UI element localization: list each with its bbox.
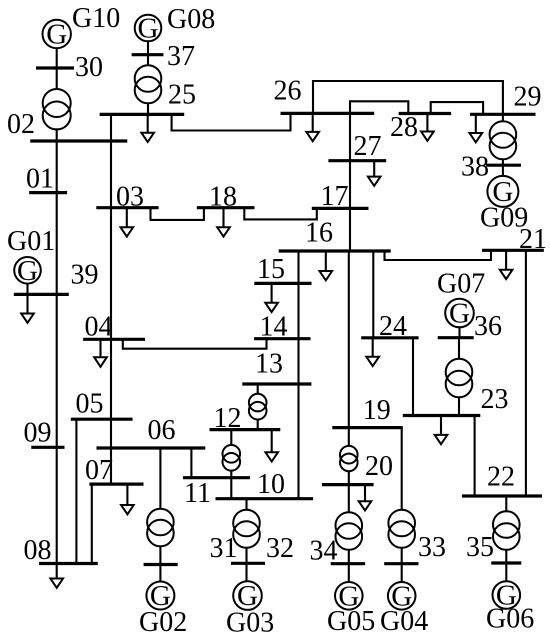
wire 17-18 step link [244,208,316,220]
wire bus 22 to transformer 35 [505,496,507,512]
svg-text:G04: G04 [380,606,428,637]
wire 25-26 step link [172,113,291,130]
transformer 29-38 [490,121,517,159]
bus 21 [482,249,544,252]
transformer 11-12 [223,445,241,471]
svg-text:15: 15 [257,254,285,285]
svg-text:01: 01 [26,164,54,195]
svg-text:13: 13 [255,349,283,380]
bus 22 [462,494,542,497]
wire bus 29 to transformer 38 [502,114,504,121]
wire 23-24 [412,338,414,416]
load at bus 07 [121,484,134,514]
svg-text:38: 38 [461,152,489,183]
generator G05 [335,580,363,612]
wire 26-28 step link [350,101,408,113]
bus 38 [486,164,521,167]
svg-text:10: 10 [257,469,285,500]
svg-text:G08: G08 [167,4,215,35]
svg-text:34: 34 [310,536,338,567]
load at bus 24 [366,338,379,366]
wire 22-23 [474,416,476,497]
generator G01 [14,255,41,287]
wire 17-27 [349,161,351,209]
generator G06 [493,580,521,612]
load at bus 26 [306,113,319,141]
wire 06-07 [110,448,112,484]
wire 13-14 [297,339,299,384]
wire G10 to bus 30 [56,48,58,68]
svg-text:37: 37 [167,41,195,72]
wire transformer to bus 23 [458,397,460,415]
transformer 19-33 [388,510,415,548]
transformer 20-34 [336,512,363,550]
transformer 19-20 [340,446,358,471]
wire bus 19 to transformer 20 [348,428,350,446]
load at bus 29 [470,114,483,142]
bus 18 [197,206,255,209]
load at bus 25 [141,114,154,142]
wire 14-15 [297,283,299,338]
svg-text:35: 35 [466,532,494,563]
wire 06-11 [190,448,192,478]
load at bus 21 [500,250,513,279]
wire 28-29 step link [431,102,483,114]
svg-text:G: G [449,298,470,330]
wire bus 13 to transformer 12-13 [257,384,259,394]
bus 32 [231,562,265,565]
bus 13 [242,382,311,385]
wire G01 to bus 39 [26,284,28,295]
wire bus 10 to transformer 32 [245,499,247,510]
svg-text:G01: G01 [7,226,55,257]
svg-text:26: 26 [274,76,302,107]
bus 01 [29,191,67,194]
bus 36 [438,336,474,339]
wire transformer to bus 34 [348,550,350,564]
wire transformer to bus 12 [257,420,259,430]
wire 05-08 [75,419,77,563]
wire 05-06 [110,419,112,448]
wire 07-08 [91,484,93,563]
wire bus 38 to G09 [502,165,504,176]
wire G08 to bus 37 [147,41,149,54]
generator G07 [445,298,474,330]
bus 28 [399,112,451,115]
bus 06 [97,446,206,449]
wire bus 36 to transformer [458,338,460,359]
svg-text:07: 07 [85,455,113,486]
wire 15-16 [297,251,299,283]
wire bus 34 to G05 [348,564,350,582]
bus 29 [470,113,536,116]
wire 02-03 [110,141,112,208]
bus 24 [361,336,418,339]
load at bus 03 [121,208,134,237]
transformer 10-32 [233,510,260,548]
load at bus 12 [265,430,278,462]
transformer 25-37 [135,65,162,103]
wire 16-21 step link [385,250,492,260]
wire transformer to bus 11 [230,471,232,478]
transformer 06-31 [147,509,174,547]
svg-text:G: G [17,255,38,287]
bus 23 [403,414,481,417]
wire bus 19 to transformer 33 [401,428,403,510]
load at bus 20 [359,485,372,511]
bus 15 [254,282,311,285]
wire 26-27 [349,113,351,160]
svg-text:G03: G03 [226,608,274,639]
svg-text:23: 23 [481,384,509,415]
wire bus 35 to G06 [505,563,507,581]
bus 14 [254,337,310,340]
svg-text:33: 33 [418,532,446,563]
svg-text:09: 09 [24,418,52,449]
wire transformer to bus 38 [502,159,504,165]
wire bus 30 to transformer [56,68,58,90]
bus 34 [331,562,365,565]
bus 26 [281,112,375,115]
load at bus 04 [94,339,107,367]
load at bus 23 [435,416,448,445]
wire bus 33 to G04 [401,564,403,582]
bus 04 [83,338,145,341]
bus 19 [332,426,403,429]
svg-text:20: 20 [365,451,393,482]
wire 16-24 [372,251,374,338]
svg-text:G02: G02 [139,607,187,638]
svg-text:05: 05 [76,389,104,420]
wire transformer to bus 25 [147,103,149,114]
wire 04-05 [110,339,112,419]
bus 35 [491,561,521,564]
bus 20 [322,483,374,486]
wire 21-22 [525,250,527,496]
wire 26-29 long line [313,81,503,114]
wire 01-02 [56,141,58,193]
bus 39 [14,293,69,296]
bus 08 [39,562,98,565]
wire G07 to bus 36 [458,327,460,337]
wire transformer to bus 02 [56,128,58,141]
bus 09 [31,446,64,449]
wire 01-39 [56,193,58,295]
svg-text:27: 27 [354,131,382,162]
svg-text:06: 06 [148,415,176,446]
bus 31 [144,563,178,566]
bus 27 [328,159,386,162]
svg-text:G05: G05 [327,606,375,637]
wire transformer to bus 20 [348,471,350,484]
bus 30 [36,66,74,69]
bus 07 [89,483,143,486]
wire bus 37 to transformer [147,55,149,66]
wire 16-17 [349,208,351,251]
wire 06 to transformer 31 [159,448,161,510]
wire transformer to bus 35 [505,550,507,563]
wire bus 31 to G02 [159,565,161,582]
svg-text:28: 28 [390,112,418,143]
svg-text:11: 11 [184,478,211,509]
wire 10-13 [297,384,299,499]
wire 02-25 [110,114,112,141]
generator G04 [388,580,416,612]
generator G10 [43,19,71,51]
svg-text:G: G [46,19,67,51]
bus 10 [216,497,314,500]
bus 16 [279,249,391,252]
svg-text:08: 08 [24,535,52,566]
wire 16-19 [348,251,350,428]
load at bus 15 [265,283,278,312]
bus 05 [71,418,133,421]
svg-text:G06: G06 [486,604,534,635]
wire bus 20 to transformer 34 [348,485,350,513]
load at bus 08 [50,564,63,588]
svg-text:02: 02 [7,109,35,140]
transformer 22-35 [493,511,520,550]
svg-text:19: 19 [363,395,391,426]
bus 37 [132,53,164,56]
wire 39-09 [56,294,58,447]
bus 02 [30,139,127,142]
wire transformer to bus 32 [245,548,247,564]
wire transformer to bus 31 [159,546,161,564]
load at bus 18 [217,208,230,237]
bus 03 [96,206,158,209]
wire 03-04 [110,208,112,339]
transformer 23-36 [446,359,473,398]
wire 03-18 step link [151,208,204,220]
svg-text:22: 22 [487,462,515,493]
svg-text:G10: G10 [72,3,120,34]
svg-text:36: 36 [474,311,502,342]
generator G08 [135,13,162,45]
wire 08-09 [56,447,58,563]
wire 10-11 [230,478,232,499]
svg-text:30: 30 [75,52,103,83]
bus 33 [384,562,418,565]
wire bus 12 to transformer 11-12 [230,430,232,446]
bus 12 [210,428,281,431]
bus 25 [100,113,185,116]
svg-text:G07: G07 [437,269,485,300]
svg-text:25: 25 [168,80,196,111]
svg-text:G: G [138,13,159,45]
generator G03 [233,580,262,612]
bus 17 [312,207,369,210]
generator G02 [146,580,174,612]
svg-text:32: 32 [266,533,294,564]
generator G09 [487,176,518,208]
bus 11 [183,476,250,479]
load at bus 27 [368,161,381,186]
svg-text:16: 16 [305,218,333,249]
load at bus 28 [421,114,434,141]
load at bus 39 [21,294,34,322]
transformer 12-13 [249,394,267,420]
svg-text:39: 39 [71,260,99,291]
transformer 02-30 [43,89,71,130]
wire 04-14 step link [123,339,267,349]
wire transformer to bus 33 [401,548,403,564]
load at bus 16 [320,251,333,280]
wire bus 32 to G03 [245,563,247,581]
svg-text:29: 29 [514,82,542,113]
